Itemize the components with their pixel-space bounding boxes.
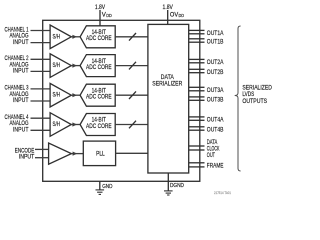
svg-text:217514 TA01: 217514 TA01 xyxy=(214,190,232,195)
svg-text:14-BIT: 14-BIT xyxy=(92,88,107,94)
svg-text:INPUT: INPUT xyxy=(13,97,29,104)
svg-text:ADC CORE: ADC CORE xyxy=(86,36,112,42)
bus slash channel 1 xyxy=(129,33,136,41)
arrowhead channel 4 xyxy=(72,122,77,126)
bus wire ADC4 to serializer xyxy=(115,124,148,126)
LVDS output pair FRAME xyxy=(189,162,205,164)
encode buffer amp xyxy=(49,143,72,164)
svg-text:OUT3B: OUT3B xyxy=(207,96,224,103)
svg-text:14-BIT: 14-BIT xyxy=(92,118,107,124)
VDD supply line xyxy=(99,10,101,26)
arrowhead channel 3 xyxy=(72,93,77,97)
svg-text:ADC CORE: ADC CORE xyxy=(86,95,112,101)
DGND pin wire xyxy=(167,173,169,191)
wire channel 4 input - xyxy=(31,129,52,131)
svg-text:GND: GND xyxy=(102,184,112,190)
chip outline xyxy=(43,20,200,181)
LVDS output pair OUT3B xyxy=(189,96,205,98)
svg-text:1.8V: 1.8V xyxy=(163,5,173,11)
LVDS output pair OUT3A xyxy=(189,86,205,88)
wire encode input - xyxy=(35,157,50,159)
svg-text:INPUT: INPUT xyxy=(13,39,29,46)
LVDS output pair OUT1A xyxy=(189,29,205,31)
svg-text:PLL: PLL xyxy=(96,151,105,157)
svg-text:OUT4A: OUT4A xyxy=(207,116,224,123)
wire S/H4 to ADC xyxy=(71,124,80,126)
LVDS output pair OUT4A xyxy=(189,116,205,118)
wire S/H2 to ADC xyxy=(71,65,80,67)
svg-text:S/H: S/H xyxy=(53,33,60,40)
wire channel 1 input + xyxy=(31,30,52,32)
GND pin wire xyxy=(99,181,101,190)
svg-text:OUT2B: OUT2B xyxy=(207,69,224,76)
svg-text:INPUT: INPUT xyxy=(19,154,35,161)
LVDS output pair DCO xyxy=(189,145,205,147)
wire encode input + xyxy=(35,148,50,150)
S/H amp channel 3 xyxy=(50,83,71,107)
svg-text:OUTPUTS: OUTPUTS xyxy=(242,98,267,105)
svg-text:OUT2A: OUT2A xyxy=(207,59,224,66)
bus slash channel 2 xyxy=(129,62,136,70)
arrowhead encode xyxy=(73,152,78,156)
svg-text:ADC CORE: ADC CORE xyxy=(86,65,112,71)
14-bit ADC core channel 2 xyxy=(80,55,115,77)
wire channel 3 input - xyxy=(31,100,52,102)
brace serialized LVDS outputs xyxy=(235,26,241,171)
wire channel 3 input + xyxy=(31,88,52,90)
svg-text:OUT1A: OUT1A xyxy=(207,30,224,37)
wire channel 2 input - xyxy=(31,70,52,72)
LVDS output pair OUT4B xyxy=(189,126,205,128)
wire S/H3 to ADC xyxy=(71,94,80,96)
svg-text:OUT1B: OUT1B xyxy=(207,38,224,45)
OVDD supply line xyxy=(167,10,169,24)
S/H amp channel 4 xyxy=(50,113,71,137)
14-bit ADC core channel 4 xyxy=(80,114,115,136)
svg-text:14-BIT: 14-BIT xyxy=(92,59,107,65)
svg-text:DATA: DATA xyxy=(161,75,174,81)
svg-text:DD: DD xyxy=(179,13,185,18)
svg-text:FRAME: FRAME xyxy=(207,163,224,170)
14-bit ADC core channel 1 xyxy=(80,26,115,48)
bus slash channel 3 xyxy=(129,91,136,99)
data serializer block xyxy=(148,24,189,173)
wire encode to PLL xyxy=(71,153,83,155)
PLL block xyxy=(83,141,115,166)
S/H amp channel 2 xyxy=(50,54,71,78)
ground symbol DGND xyxy=(164,191,173,195)
arrowhead channel 2 xyxy=(72,64,77,68)
14-bit ADC core channel 3 xyxy=(80,84,115,106)
LVDS output pair OUT2B xyxy=(189,68,205,70)
svg-text:14-BIT: 14-BIT xyxy=(92,30,107,36)
svg-text:OUT: OUT xyxy=(207,152,215,159)
LVDS output pair OUT2A xyxy=(189,58,205,60)
svg-text:1.8V: 1.8V xyxy=(95,5,105,11)
wire channel 2 input + xyxy=(31,58,52,60)
svg-text:DD: DD xyxy=(106,13,112,18)
svg-text:S/H: S/H xyxy=(53,121,60,128)
arrowhead channel 1 xyxy=(72,35,77,39)
bus wire ADC2 to serializer xyxy=(115,65,148,67)
svg-text:S/H: S/H xyxy=(53,92,60,99)
wire PLL to serializer xyxy=(116,152,148,154)
bus slash channel 4 xyxy=(129,121,136,129)
LVDS output pair OUT1B xyxy=(189,38,205,40)
svg-text:OUT3A: OUT3A xyxy=(207,87,224,94)
wire S/H1 to ADC xyxy=(71,36,80,38)
svg-text:INPUT: INPUT xyxy=(13,68,29,75)
wire channel 4 input + xyxy=(31,117,52,119)
ground symbol GND xyxy=(96,190,105,195)
svg-text:SERIALIZER: SERIALIZER xyxy=(152,81,183,87)
svg-text:S/H: S/H xyxy=(53,62,60,69)
svg-text:DGND: DGND xyxy=(170,183,184,189)
wire channel 1 input - xyxy=(31,42,52,44)
svg-text:INPUT: INPUT xyxy=(13,126,29,133)
svg-text:OUT4B: OUT4B xyxy=(207,126,224,133)
S/H amp channel 1 xyxy=(50,25,71,49)
svg-text:ADC CORE: ADC CORE xyxy=(86,124,112,130)
bus wire ADC3 to serializer xyxy=(115,94,148,96)
bus wire ADC1 to serializer xyxy=(115,36,148,38)
